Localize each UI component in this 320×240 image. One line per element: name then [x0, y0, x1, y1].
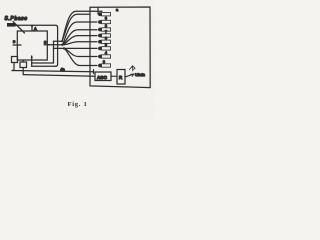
terminal A tick — [31, 25, 33, 31]
node A dot — [31, 25, 33, 27]
relay row1 — [98, 12, 102, 16]
wire right vertical x57 — [56, 28, 58, 67]
component box2 below bridge — [20, 62, 27, 68]
fan wire row6 — [64, 47, 97, 49]
fan wire row7 — [64, 48, 97, 56]
fan wire row5 — [63, 42, 98, 45]
svg-text:7: 7 — [105, 30, 107, 34]
wire middle loop vertical x53.5 — [53, 41, 55, 63]
sensor arrow — [13, 22, 25, 34]
svg-text:5: 5 — [105, 43, 107, 47]
svg-text:9: 9 — [105, 17, 107, 21]
bridge box — [17, 31, 47, 60]
component box1 bottom-left — [12, 57, 18, 63]
svg-text:U/min: U/min — [135, 73, 145, 77]
svg-text:6: 6 — [105, 36, 107, 40]
svg-text:4a: 4a — [61, 68, 65, 72]
relay row8 — [98, 64, 102, 68]
junction dot upper — [61, 44, 63, 46]
fan wire to T-bar — [62, 11, 94, 41]
output arrow — [126, 74, 134, 77]
wire long bottom 1 — [12, 71, 94, 72]
junction dot top — [61, 40, 63, 42]
fan wire row1 — [62, 14, 90, 41]
paper background — [0, 0, 154, 120]
wire box2 top tick — [22, 60, 24, 62]
svg-text:8: 8 — [105, 24, 107, 28]
fan wire row4 — [63, 36, 98, 45]
svg-text:AGC: AGC — [97, 75, 108, 80]
wire bridge B to junction — [47, 44, 62, 46]
relay row5 — [98, 40, 102, 44]
flag glyph — [130, 66, 136, 71]
sensor R0 — [7, 23, 16, 27]
wire long bottom 2 — [23, 75, 95, 77]
amplifier AGC box — [95, 72, 111, 81]
terminal D tick — [13, 44, 21, 46]
wire top horizontal — [16, 25, 58, 27]
wire feed y41 — [54, 40, 63, 42]
relay row6 — [98, 47, 102, 51]
relay row2 — [98, 20, 102, 24]
svg-text:Fig. 1: Fig. 1 — [68, 101, 88, 108]
svg-text:a: a — [116, 8, 118, 12]
svg-text:R: R — [119, 75, 122, 80]
regulator R box — [117, 70, 125, 85]
terminal B tick — [44, 44, 50, 46]
svg-text:3: 3 — [103, 60, 105, 64]
terminal tick before AGC — [93, 70, 95, 74]
T-bar above row1 — [94, 7, 102, 14]
wire AGC to R box — [111, 75, 117, 77]
fan wire row2 — [63, 22, 98, 45]
relay row3 — [98, 28, 102, 32]
fan wire row8 — [64, 48, 97, 65]
svg-text:A: A — [34, 26, 37, 31]
wire box1 down — [12, 63, 14, 71]
wire feed y48 — [54, 47, 65, 49]
relay row4 — [98, 34, 102, 38]
relay row7 — [98, 55, 102, 59]
wire middle loop horizontal y63 — [32, 62, 54, 64]
terminal C tick — [31, 56, 33, 66]
svg-text:S.Phase: S.Phase — [5, 16, 28, 22]
control unit big box — [90, 7, 150, 88]
node C dot — [31, 56, 33, 58]
junction dot lower — [63, 47, 65, 49]
fan wire row3 — [63, 30, 98, 45]
wire bottom horizontal y66 — [32, 65, 56, 67]
svg-text:4: 4 — [105, 51, 107, 55]
wire box2 down — [22, 68, 24, 75]
